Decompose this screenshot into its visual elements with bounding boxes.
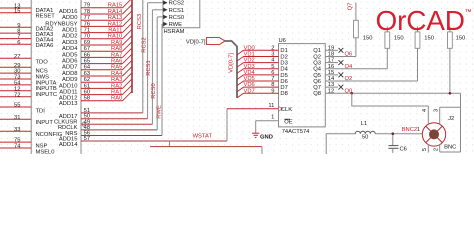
svg-text:ADD6: ADD6 [62,59,77,65]
svg-text:50: 50 [362,135,368,141]
svg-text:74: 74 [14,144,21,150]
svg-text:ADD5: ADD5 [62,52,77,58]
svg-text:RA9: RA9 [111,40,122,46]
svg-text:RCS0: RCS0 [151,83,157,98]
svg-text:RA11: RA11 [108,28,122,34]
svg-text:5: 5 [271,64,274,70]
svg-text:55: 55 [14,103,20,109]
svg-text:RA8: RA8 [111,46,122,52]
svg-text:OrCAD: OrCAD [376,5,465,36]
svg-text:D8: D8 [280,91,287,97]
svg-text:BNC: BNC [444,145,456,151]
svg-text:VD1: VD1 [244,52,255,58]
svg-text:D1: D1 [280,48,287,54]
svg-text:5: 5 [422,148,428,151]
svg-text:RDYNBUSY: RDYNBUSY [45,21,77,27]
svg-text:150: 150 [363,36,373,42]
svg-text:6: 6 [271,70,274,76]
svg-text:150: 150 [456,36,466,42]
svg-text:RA0: RA0 [111,96,122,102]
svg-text:VD2: VD2 [244,58,255,64]
svg-text:Q2: Q2 [313,54,321,60]
svg-text:58: 58 [84,96,90,102]
svg-text:VD5: VD5 [244,76,255,82]
svg-text:27: 27 [14,54,20,60]
svg-text:63: 63 [84,71,90,77]
svg-text:OE: OE [284,120,293,126]
svg-text:72: 72 [14,92,20,98]
svg-text:RA15: RA15 [108,3,123,9]
svg-text:60: 60 [84,90,90,96]
svg-text:VD6: VD6 [244,82,255,88]
svg-text:D6: D6 [280,79,287,85]
svg-text:TDO: TDO [36,59,49,65]
svg-text:ADD3: ADD3 [62,40,77,46]
svg-text:ADD13: ADD13 [59,101,78,107]
svg-text:65: 65 [84,59,90,65]
svg-text:31: 31 [14,115,20,121]
svg-text:TDI: TDI [36,109,46,115]
svg-text:U6: U6 [279,38,286,44]
svg-text:RCS1: RCS1 [146,60,152,75]
svg-text:70: 70 [84,34,90,40]
svg-text:Q5: Q5 [313,73,321,79]
svg-text:ADD0: ADD0 [62,15,77,21]
svg-text:15: 15 [14,8,20,14]
svg-text:Q1: Q1 [313,48,321,54]
svg-text:VD0: VD0 [244,45,255,51]
svg-text:MSEL0: MSEL0 [36,149,55,154]
svg-text:74ACT574: 74ACT574 [282,129,310,135]
svg-text:RA7: RA7 [111,52,122,58]
svg-text:ADD4: ADD4 [62,46,78,52]
svg-text:62: 62 [84,77,90,83]
svg-text:ADD8: ADD8 [62,71,77,77]
svg-text:RA2: RA2 [111,83,122,89]
svg-text:INPUTC: INPUTC [36,92,58,98]
svg-text:6: 6 [17,40,20,46]
svg-text:RA3: RA3 [111,77,122,83]
svg-text:VD4: VD4 [244,70,256,76]
svg-text:RA6: RA6 [111,59,122,65]
svg-text:J2: J2 [448,116,454,122]
svg-text:RCS2: RCS2 [169,1,184,7]
svg-text:RA12: RA12 [108,21,123,27]
svg-text:67: 67 [84,46,90,52]
svg-text:RCS3: RCS3 [137,14,143,29]
svg-text:ADD7: ADD7 [62,65,77,71]
svg-text:150: 150 [394,36,404,42]
svg-text:VD[0-7]: VD[0-7] [228,53,234,73]
svg-text:L1: L1 [361,121,367,127]
svg-text:RA13: RA13 [108,15,123,21]
svg-text:VD7: VD7 [244,88,255,94]
svg-text:Q8: Q8 [313,91,321,97]
svg-text:D4: D4 [280,67,288,73]
svg-text:VD3: VD3 [244,64,255,70]
svg-text:RESET: RESET [36,14,56,20]
svg-text:RA5: RA5 [111,65,122,71]
svg-text:2: 2 [271,45,274,51]
svg-text:64: 64 [84,65,91,71]
svg-text:3: 3 [271,52,274,58]
svg-text:CLK: CLK [281,107,292,113]
svg-text:71: 71 [84,28,90,34]
svg-text:RWE: RWE [169,22,183,28]
svg-text:RA14: RA14 [108,9,123,15]
svg-text:DATA6: DATA6 [36,43,54,49]
svg-text:RCS1: RCS1 [169,8,184,14]
svg-text:1: 1 [417,127,420,133]
svg-text:77: 77 [84,15,90,21]
svg-text:3: 3 [434,109,440,112]
svg-text:C6: C6 [400,147,407,153]
svg-text:ADD14: ADD14 [59,142,78,148]
svg-text:33: 33 [14,127,20,133]
svg-text:79: 79 [84,3,90,9]
svg-text:D3: D3 [280,60,287,66]
svg-text:ADD16: ADD16 [59,9,78,15]
svg-text:RA1: RA1 [111,90,122,96]
svg-text:8: 8 [271,82,274,88]
svg-text:Q4: Q4 [313,67,322,73]
svg-text:RCS2: RCS2 [141,37,147,52]
svg-text:RA4: RA4 [111,71,123,77]
svg-text:61: 61 [84,83,90,89]
svg-text:GND: GND [260,135,273,141]
svg-text:Q7: Q7 [348,3,354,11]
svg-text:ADD10: ADD10 [59,83,78,89]
svg-text:150: 150 [424,36,434,42]
svg-text:11: 11 [268,103,274,109]
svg-text:76: 76 [84,21,90,27]
svg-text:Q3: Q3 [313,60,321,66]
svg-text:RCS0: RCS0 [169,15,184,21]
svg-text:INPUT: INPUT [36,120,54,126]
svg-text:HSRAM: HSRAM [164,29,185,35]
svg-text:ADD1: ADD1 [62,28,77,34]
svg-text:WSTAT: WSTAT [193,133,213,139]
svg-text:ADD2: ADD2 [62,34,77,40]
svg-text:BNC2: BNC2 [402,127,417,133]
svg-text:ADD9: ADD9 [62,77,77,83]
svg-text:™: ™ [465,9,472,16]
svg-text:1: 1 [271,114,274,120]
svg-text:D5: D5 [280,73,287,79]
svg-text:78: 78 [84,9,90,15]
svg-text:69: 69 [84,40,90,46]
svg-text:9: 9 [271,88,274,94]
svg-text:ADD11: ADD11 [59,90,77,96]
svg-text:Q6: Q6 [313,79,321,85]
svg-text:D2: D2 [280,54,287,60]
svg-text:66: 66 [84,52,90,58]
svg-text:RA10: RA10 [108,34,123,40]
svg-text:7: 7 [271,76,274,82]
svg-text:2: 2 [434,148,440,151]
svg-text:D7: D7 [280,85,287,91]
svg-text:Q7: Q7 [313,85,321,91]
svg-text:VD[0-7]: VD[0-7] [186,40,206,46]
svg-text:RWE: RWE [157,105,163,119]
